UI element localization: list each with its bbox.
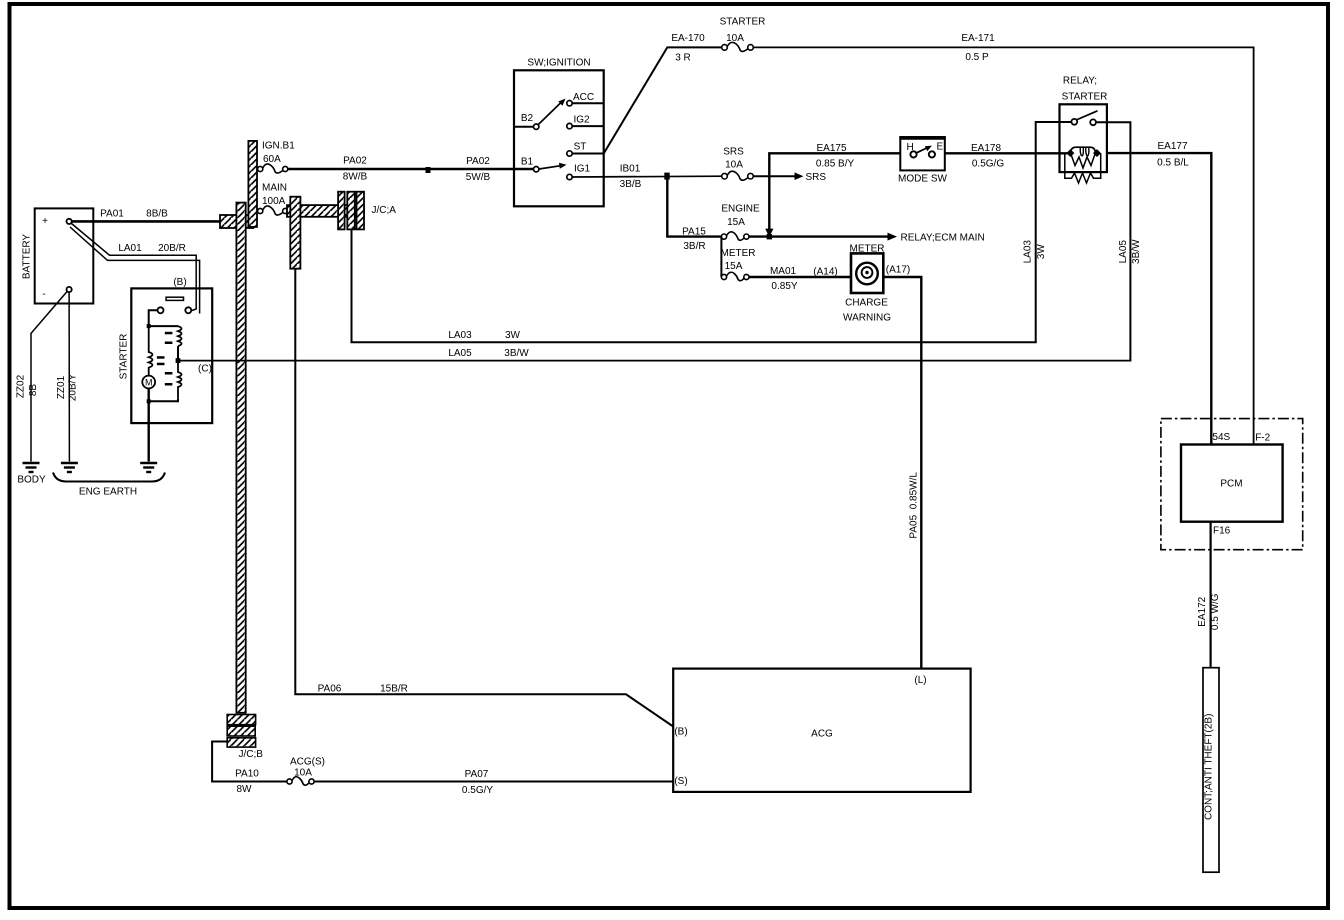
svg-text:8B/B: 8B/B <box>146 209 168 220</box>
svg-text:LA05: LA05 <box>1118 240 1129 264</box>
svg-text:LA03: LA03 <box>1023 240 1034 264</box>
svg-text:B1: B1 <box>521 157 534 168</box>
starter solenoid contact left <box>158 307 164 313</box>
wire EA177 relay to PCM <box>1107 153 1211 444</box>
svg-text:CONT;ANTI THEFT(2B): CONT;ANTI THEFT(2B) <box>1203 714 1214 820</box>
node starter coil top <box>147 324 151 328</box>
starter pull-in coil (upper) <box>178 326 182 346</box>
svg-text:J/C;A: J/C;A <box>372 205 397 216</box>
wire to relay ecm main arrow <box>749 235 888 237</box>
svg-text:(C): (C) <box>198 364 212 375</box>
svg-text:RELAY;ECM MAIN: RELAY;ECM MAIN <box>901 233 985 244</box>
svg-text:LA05: LA05 <box>448 348 472 359</box>
svg-text:8W/B: 8W/B <box>343 172 368 183</box>
switch arm B2-ACC <box>538 103 561 125</box>
svg-text:PA10: PA10 <box>235 769 259 780</box>
svg-text:STARTER: STARTER <box>1062 92 1108 103</box>
svg-text:100A: 100A <box>262 196 286 207</box>
pin IG1 <box>567 174 572 179</box>
wire ZZ01 battery- to eng earth ground <box>68 292 70 461</box>
svg-text:(B): (B) <box>173 277 186 288</box>
svg-text:PA05 0.85W/L: PA05 0.85W/L <box>908 472 919 539</box>
fusible link bar vertical top (IGN.B1 feed) <box>248 141 257 227</box>
wire coil to (C) node <box>177 346 179 361</box>
svg-text:(A17): (A17) <box>886 265 910 276</box>
node starter bottom <box>147 399 151 403</box>
svg-text:3B/W: 3B/W <box>504 348 529 359</box>
CONT;ANTI THEFT box <box>1203 668 1219 873</box>
node starter (C) <box>176 358 181 363</box>
svg-text:IB01: IB01 <box>620 164 641 175</box>
svg-text:IG2: IG2 <box>573 115 590 126</box>
pin ST <box>567 151 572 156</box>
svg-text:10A: 10A <box>726 33 744 44</box>
relay starter <box>1060 76 1108 173</box>
svg-text:PA15: PA15 <box>682 227 706 238</box>
ENG EARTH bracket <box>53 473 165 482</box>
svg-text:8W: 8W <box>237 784 253 795</box>
wire PA02 to ignition B1 <box>288 168 536 170</box>
ignition switch SW;IGNITION <box>514 58 604 207</box>
svg-text:ZZ01: ZZ01 <box>56 375 67 399</box>
svg-text:5W/B: 5W/B <box>466 172 491 183</box>
svg-text:E: E <box>937 142 944 153</box>
wire ST to starter fuse (EA-170) <box>604 47 722 153</box>
svg-text:0.5 P: 0.5 P <box>965 52 989 63</box>
svg-text:15A: 15A <box>725 261 743 272</box>
wire PA07 to ACG S <box>314 781 673 783</box>
charge warning lamp <box>856 263 878 285</box>
starter solenoid contact bar <box>166 297 183 300</box>
fusible link bar horizontal (battery feed) <box>220 215 254 228</box>
J/C;A horizontal bar <box>287 205 364 217</box>
svg-text:ACG: ACG <box>811 729 833 740</box>
mode sw contact left <box>910 151 916 157</box>
svg-text:STARTER: STARTER <box>720 17 766 28</box>
svg-text:EA-170: EA-170 <box>671 33 705 44</box>
wire PA06 from J/C;A left bar to ACG B <box>295 269 673 727</box>
svg-text:0.85Y: 0.85Y <box>771 281 797 292</box>
node PA02 junction <box>426 167 431 173</box>
svg-text:EA-171: EA-171 <box>961 33 995 44</box>
wire EA172 PCM to cont anti theft <box>1209 522 1211 668</box>
ground starter eng earth <box>140 463 157 472</box>
starter field winding on main line <box>149 326 153 375</box>
svg-text:SW;IGNITION: SW;IGNITION <box>527 58 590 69</box>
svg-text:20B/R: 20B/R <box>158 243 186 254</box>
mode switch <box>898 137 947 185</box>
wire SRS fuse to arrow <box>753 175 795 177</box>
switch arm B1-IG1 <box>539 166 560 169</box>
svg-text:STARTER: STARTER <box>119 334 130 380</box>
wire EA-171 to PCM <box>753 47 1253 444</box>
svg-text:15B/R: 15B/R <box>380 684 408 695</box>
svg-text:3 R: 3 R <box>675 53 691 64</box>
svg-text:0.5G/Y: 0.5G/Y <box>462 785 493 796</box>
svg-text:+: + <box>42 216 48 227</box>
ground ZZ01 eng earth <box>61 463 78 472</box>
svg-text:IG1: IG1 <box>574 164 591 175</box>
svg-text:PA06: PA06 <box>318 684 342 695</box>
wire LA03 horizontal from J/C;A <box>352 229 1037 342</box>
J/C;A vertical strip 1 <box>338 192 345 230</box>
node engine junction <box>767 234 772 239</box>
starter hold coil (lower) <box>178 361 182 399</box>
wire starter to ground <box>147 388 149 461</box>
svg-text:54S: 54S <box>1212 432 1230 443</box>
svg-text:PA01: PA01 <box>100 209 124 220</box>
svg-text:0.5 B/L: 0.5 B/L <box>1157 158 1189 169</box>
wire mode sw to relay (EA178) <box>945 152 1070 154</box>
svg-text:(S): (S) <box>674 776 687 787</box>
svg-text:BODY: BODY <box>17 475 46 486</box>
svg-text:15A: 15A <box>727 217 745 228</box>
relay coil node left <box>1066 149 1074 157</box>
starter solenoid contact right <box>185 307 191 313</box>
svg-text:EA175: EA175 <box>816 143 846 154</box>
relay parallel resistor below <box>1065 153 1101 183</box>
wire lower coil to motor line <box>149 399 178 402</box>
fusible link bar vertical long <box>236 203 245 713</box>
wire MA01 to meter <box>749 276 851 278</box>
svg-text:(L): (L) <box>914 675 926 686</box>
svg-text:ACC: ACC <box>573 92 594 103</box>
PCM dash-dot boundary <box>1161 419 1303 550</box>
battery negative terminal <box>67 287 72 292</box>
wire IB01 junction down to PA15 <box>667 176 722 236</box>
svg-text:PA02: PA02 <box>466 156 490 167</box>
svg-text:LA01: LA01 <box>118 243 142 254</box>
J/C;A vertical strip 3 <box>357 192 365 230</box>
svg-text:B2: B2 <box>521 113 534 124</box>
PCM box <box>1181 432 1283 537</box>
svg-text:M: M <box>145 377 153 387</box>
wire PA01 battery+ to fusible link <box>72 220 220 223</box>
svg-text:20B/Y: 20B/Y <box>68 374 79 402</box>
svg-text:3W: 3W <box>1036 244 1047 260</box>
battery positive terminal <box>67 219 72 224</box>
svg-text:EA172: EA172 <box>1197 596 1208 626</box>
relay switch contacts <box>1071 119 1077 125</box>
svg-text:(A14): (A14) <box>813 267 837 278</box>
mode sw contact right <box>929 151 935 157</box>
pin B2 <box>514 126 534 128</box>
J/C;A vertical strip 2 <box>347 192 355 230</box>
battery B1 <box>22 208 94 303</box>
svg-text:3B/B: 3B/B <box>620 179 642 190</box>
svg-text:SRS: SRS <box>806 172 827 183</box>
wire LA05 horizontal from starter (C) <box>180 360 1131 362</box>
svg-text:(B): (B) <box>674 727 687 738</box>
pin IG2 <box>567 123 572 128</box>
svg-text:EA177: EA177 <box>1157 141 1187 152</box>
wire engine fuse feed down to meter fuse <box>720 237 722 277</box>
svg-text:F16: F16 <box>1213 526 1231 537</box>
J/C;B strips <box>227 715 255 725</box>
svg-text:-: - <box>42 289 45 300</box>
svg-text:EA178: EA178 <box>971 143 1001 154</box>
svg-text:ENGINE: ENGINE <box>721 204 760 215</box>
svg-text:MODE SW: MODE SW <box>898 174 947 185</box>
svg-text:3B/R: 3B/R <box>683 241 705 252</box>
svg-text:8B: 8B <box>28 384 39 397</box>
svg-text:60A: 60A <box>263 154 281 165</box>
wire IB01 from IG1 <box>572 175 722 178</box>
svg-text:ST: ST <box>574 142 587 153</box>
svg-text:J/C;B: J/C;B <box>239 749 264 760</box>
wire coil branch top <box>149 325 178 327</box>
node IB01 junction <box>664 173 669 180</box>
wire LA03 vertical to relay switch <box>1036 122 1072 342</box>
wire EA175 to mode sw <box>769 153 900 229</box>
svg-text:MAIN: MAIN <box>262 183 287 194</box>
svg-text:PA02: PA02 <box>343 156 367 167</box>
svg-text:ACG(S): ACG(S) <box>290 757 325 768</box>
wire PA10 from J/C;B <box>212 742 287 782</box>
svg-text:F-2: F-2 <box>1255 433 1270 444</box>
svg-text:10A: 10A <box>725 160 743 171</box>
svg-text:0.5 W/G: 0.5 W/G <box>1210 593 1221 630</box>
relay coil <box>1071 147 1096 153</box>
relay switch arm <box>1077 111 1098 120</box>
svg-text:0.85 B/Y: 0.85 B/Y <box>816 159 855 170</box>
pin B1 <box>534 167 539 172</box>
svg-text:PCM: PCM <box>1220 479 1242 490</box>
pin ACC <box>567 101 572 106</box>
wire ZZ02 battery- to body ground <box>31 291 67 461</box>
ACG box <box>673 669 970 792</box>
svg-text:ENG EARTH: ENG EARTH <box>79 487 137 498</box>
ground BODY <box>23 463 40 472</box>
svg-text:SRS: SRS <box>723 147 744 158</box>
wire PA05 meter to ACG L <box>883 277 921 668</box>
svg-text:RELAY;: RELAY; <box>1063 76 1097 87</box>
svg-text:3B/W: 3B/W <box>1131 239 1142 264</box>
J/C;A vertical bar left <box>290 197 300 269</box>
starter M1 <box>119 277 213 423</box>
arrow into engine fuse node <box>765 229 773 238</box>
svg-text:PA07: PA07 <box>465 769 489 780</box>
mode sw arm <box>917 148 928 153</box>
wire LA05 vertical to relay switch <box>1096 122 1130 360</box>
wire LA01 battery+ to starter (double line) <box>72 224 197 311</box>
svg-text:BATTERY: BATTERY <box>22 234 33 280</box>
svg-text:IGN.B1: IGN.B1 <box>262 141 295 152</box>
svg-text:3W: 3W <box>505 330 521 341</box>
svg-text:WARNING: WARNING <box>843 313 891 324</box>
svg-text:CHARGE: CHARGE <box>845 298 888 309</box>
svg-text:MA01: MA01 <box>770 266 797 277</box>
svg-text:LA03: LA03 <box>448 330 472 341</box>
wire starter contact to coil node <box>149 310 158 326</box>
svg-text:0.5G/G: 0.5G/G <box>972 159 1004 170</box>
meter box <box>843 244 891 324</box>
motor M <box>142 376 155 389</box>
svg-text:ZZ02: ZZ02 <box>16 374 27 398</box>
relay coil node right <box>1093 149 1101 157</box>
arrow SRS <box>795 172 804 180</box>
svg-text:METER: METER <box>721 248 756 259</box>
